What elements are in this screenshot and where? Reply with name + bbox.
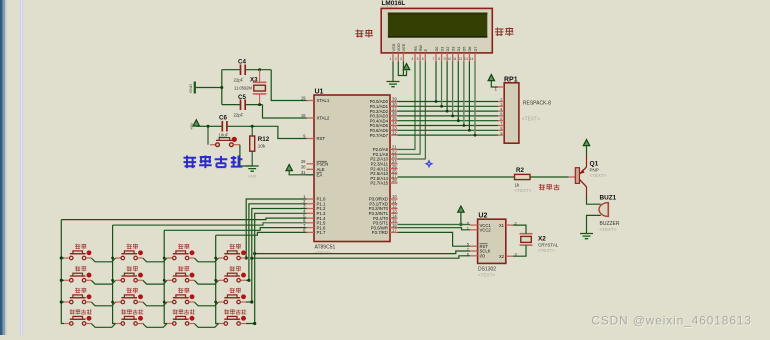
wire Q1 emitter: [586, 146, 588, 155]
wire keypad column 2: [113, 225, 116, 323]
power +5V terminal: [189, 120, 200, 130]
junction: [111, 279, 114, 282]
wire keypad column 4: [216, 235, 219, 323]
button 秒减 (row 3 col 4): [219, 288, 246, 304]
junction: [111, 301, 114, 304]
svg-text:<TEXT>: <TEXT>: [478, 273, 495, 278]
junction: [440, 105, 443, 108]
svg-text:<TEXT>: <TEXT>: [600, 227, 617, 232]
ic U1 AT89C51: [314, 89, 390, 256]
svg-text:9: 9: [444, 57, 446, 61]
svg-text:E: E: [423, 49, 428, 52]
svg-text:6: 6: [422, 57, 424, 61]
pin 1 RP1: [498, 86, 504, 88]
svg-text:P3.7/RD: P3.7/RD: [372, 230, 388, 235]
svg-text:11: 11: [453, 57, 457, 61]
svg-text:28: 28: [392, 178, 397, 183]
left panel edge: [0, 0, 3, 335]
wire row segment: [194, 302, 218, 306]
svg-text:10k: 10k: [258, 144, 266, 149]
pin 5 RP1: [498, 115, 504, 117]
junction: [250, 300, 253, 303]
wire keypad row 3 to P1.2: [246, 209, 307, 303]
wire P0 bus: [398, 110, 499, 112]
svg-text:22pF: 22pF: [234, 113, 244, 118]
pin 19 XTAL1: [307, 100, 315, 102]
svg-text:VEE: VEE: [401, 43, 406, 51]
pin 6 P1.5: [307, 222, 315, 224]
wire keypad column 4 feed: [216, 232, 307, 235]
buzzer BUZ1: [599, 195, 620, 232]
button 秒加 (row 3 col 3): [167, 288, 194, 304]
wire row segment: [143, 302, 167, 306]
svg-text:X1: X1: [499, 223, 505, 228]
pin 29 PSEN: [307, 163, 315, 165]
wire XTAL2: [263, 105, 307, 118]
wire row segment: [194, 324, 218, 328]
svg-text:2: 2: [395, 57, 397, 61]
svg-text:CRYSTAL: CRYSTAL: [538, 242, 559, 247]
capacitor C4: [234, 59, 247, 83]
button 月加 (row 1 col 3): [167, 244, 194, 260]
svg-text:R2: R2: [516, 167, 524, 174]
pin 8 U2 VCC1: [470, 224, 478, 226]
svg-text:1k: 1k: [515, 182, 521, 187]
svg-text:30: 30: [301, 165, 306, 170]
pin 37 P0.2/AD2: [390, 110, 398, 112]
wire Q1 collector to buzzer: [586, 187, 588, 197]
wire keypad column 3: [164, 230, 167, 323]
svg-text:4: 4: [412, 57, 414, 61]
junction: [250, 257, 253, 260]
pin 22 P2.1/A9: [390, 153, 398, 155]
junction: [463, 124, 466, 127]
svg-text:RESPACK-8: RESPACK-8: [523, 101, 551, 107]
svg-text:P2.7/A15: P2.7/A15: [370, 181, 388, 186]
wire LCD control: [398, 62, 421, 155]
pin 6 RP1: [498, 120, 504, 122]
junction: [253, 252, 256, 255]
wire LCD control: [398, 62, 426, 160]
button 闹钟时加 (row 4 col 1): [64, 309, 92, 325]
svg-text:D4: D4: [456, 46, 461, 52]
wire keypad column 1: [61, 220, 64, 324]
pin 21 P2.0/A8: [390, 148, 398, 150]
svg-text:13: 13: [464, 57, 468, 61]
svg-text:10: 10: [447, 57, 451, 61]
pin 3 RP1: [498, 105, 504, 107]
pin 18 XTAL2: [307, 117, 315, 119]
pin 10 P3.0/RXD: [390, 198, 398, 200]
svg-text:GND: GND: [188, 84, 193, 93]
svg-text:D7: D7: [473, 47, 478, 52]
pin 4 P1.3: [307, 212, 315, 214]
wire P3.6 to VCC2: [398, 228, 471, 230]
wire I/O: [252, 256, 470, 258]
wire P0 bus: [398, 120, 499, 122]
pin 4 RP1: [498, 110, 504, 112]
pin 9 RST: [307, 138, 315, 140]
svg-text:3: 3: [400, 57, 402, 61]
push button reset: [208, 126, 240, 146]
button 时减 (row 2 col 4): [219, 266, 246, 282]
svg-text:CSDN @weixin_46018613: CSDN @weixin_46018613: [591, 314, 751, 328]
wire buzzer to gnd: [587, 215, 601, 233]
label 复位按键: [184, 156, 197, 169]
junction: [111, 257, 114, 260]
button 闹钟时减 (row 4 col 2): [116, 309, 144, 325]
watermark CSDN: [591, 314, 752, 329]
wire LCD data: [463, 62, 465, 126]
crystal X3: [234, 70, 266, 105]
svg-text:<TEXT>: <TEXT>: [515, 188, 532, 193]
svg-text:X2: X2: [499, 254, 505, 259]
wire gnd to node: [196, 87, 222, 89]
svg-text:BUZ1: BUZ1: [600, 195, 617, 202]
svg-text:I/O: I/O: [480, 254, 486, 259]
junction: [251, 125, 254, 128]
svg-text:C6: C6: [219, 115, 227, 122]
pin 2 RP1: [498, 101, 504, 103]
wire row segment: [143, 280, 167, 284]
wire RP1 pin1: [491, 81, 498, 87]
transistor Q1 PNP: [575, 161, 606, 187]
button 年减 (row 1 col 2): [116, 244, 143, 260]
wire row segment: [91, 302, 115, 306]
LCD LCD1 LM016L: [381, 0, 492, 62]
junction: [163, 257, 166, 260]
pin 32 P0.7/AD7: [390, 134, 398, 136]
junction: [245, 256, 248, 259]
svg-text:+5V: +5V: [189, 122, 194, 130]
pin 2 U2 X1: [506, 224, 513, 226]
pin 8 RP1: [498, 129, 504, 131]
svg-text:1: 1: [390, 57, 392, 61]
label 蜂鸣器: [539, 184, 545, 190]
pin 13 P3.3/INT1: [390, 212, 398, 214]
wire LCD data: [441, 62, 443, 107]
wire P3.7 to U2 RST: [398, 232, 471, 246]
junction: [435, 100, 438, 103]
svg-text:11.0592M: 11.0592M: [234, 85, 252, 90]
junction: [258, 68, 261, 71]
pin 7 RP1: [498, 125, 504, 127]
crystal X2: [520, 234, 559, 253]
wire button to gnd: [240, 145, 252, 166]
wire keypad column 1 feed: [61, 218, 306, 220]
wire LCD data: [468, 62, 470, 131]
pin 3 U2 X2: [506, 255, 513, 257]
junction: [60, 256, 63, 259]
pin 1 P1.0: [307, 198, 315, 200]
junction: [468, 129, 471, 132]
wire row start: [61, 279, 64, 281]
pin 7 U2 SCLK: [470, 250, 478, 252]
wire row segment: [194, 280, 218, 284]
pin 16 P3.6/WR: [390, 227, 398, 229]
wire VDD to +5V: [398, 62, 406, 76]
wire LCD data: [452, 62, 454, 116]
pin 34 P0.5/AD5: [390, 125, 398, 127]
button 分加 (row 3 col 1): [64, 288, 91, 304]
button 日加 (row 2 col 1): [64, 266, 91, 282]
svg-text:<TEXT>: <TEXT>: [522, 117, 541, 123]
pin 24 P2.3/A11: [390, 163, 398, 165]
svg-text:C4: C4: [238, 59, 246, 66]
junction: [163, 301, 166, 304]
label 闹钟: [495, 28, 504, 37]
power +5V (RP1): [488, 75, 494, 81]
pin 17 P3.7/RD: [390, 231, 398, 233]
svg-text:17: 17: [392, 228, 397, 233]
svg-text:7: 7: [433, 57, 435, 61]
svg-text:12: 12: [458, 57, 462, 61]
grid guide line: [20, 0, 22, 335]
ground (buzzer): [580, 234, 593, 239]
wire row segment: [143, 258, 167, 262]
resistor R2: [515, 167, 532, 193]
junction: [459, 223, 462, 226]
svg-text:8: 8: [438, 57, 440, 61]
pin 28 P2.7/A15: [390, 182, 398, 184]
pin 36 P0.3/AD3: [390, 115, 398, 117]
pin 8 P1.7: [307, 231, 315, 233]
wire row segment: [91, 258, 115, 262]
svg-text:29: 29: [301, 159, 306, 164]
wire row segment: [91, 280, 115, 284]
svg-text:Q1: Q1: [590, 161, 599, 168]
svg-text:10uF: 10uF: [219, 133, 229, 138]
svg-text:14: 14: [470, 57, 474, 61]
svg-text:XTAL2: XTAL2: [317, 116, 330, 121]
wire LCD data: [435, 62, 437, 102]
svg-text:GND: GND: [248, 175, 256, 179]
svg-text:R12: R12: [258, 136, 270, 143]
svg-text:VSS: VSS: [391, 43, 396, 51]
power +5V (EA): [286, 165, 292, 171]
pin 30 ALE: [307, 168, 315, 170]
wire VSS: [392, 62, 394, 82]
junction: [163, 279, 166, 282]
wire P0 bus: [398, 115, 499, 117]
svg-text:D6: D6: [467, 47, 472, 52]
pin 15 P3.5/T1: [390, 222, 398, 224]
wire +5V to VCC1: [460, 213, 462, 225]
button 月减 (row 1 col 4): [219, 244, 246, 260]
svg-text:RST: RST: [317, 136, 326, 141]
svg-text:D3: D3: [451, 47, 456, 52]
pin 31 EA: [307, 174, 315, 176]
wire keypad column 3 feed: [164, 228, 306, 231]
pin 23 P2.2/A10: [390, 158, 398, 160]
capacitor C5: [234, 94, 247, 118]
svg-text:EA: EA: [317, 173, 323, 178]
wire row start: [61, 301, 64, 303]
wire EA: [289, 171, 314, 175]
wire X2 to crystal: [513, 245, 526, 256]
pin 12 P3.2/INT0: [390, 208, 398, 210]
wire SCLK: [255, 251, 470, 254]
button 时加 (row 2 col 3): [167, 266, 194, 282]
wire P0 bus: [398, 129, 499, 131]
pin 26 P2.5/A13: [390, 172, 398, 174]
junction: [214, 279, 217, 282]
junction: [474, 134, 477, 137]
capacitor C6: [219, 115, 229, 138]
pin 38 P0.1/AD1: [390, 105, 398, 107]
pin 9 RP1: [498, 134, 504, 136]
svg-text:P1.7: P1.7: [317, 230, 326, 235]
wire P0 bus: [398, 125, 499, 127]
svg-text:XTAL1: XTAL1: [317, 98, 330, 103]
pin 7 P1.6: [307, 227, 315, 229]
wire VEE: [402, 62, 404, 76]
button 闹钟分加 (row 4 col 3): [167, 309, 195, 325]
svg-text:22pF: 22pF: [234, 78, 244, 83]
svg-text:VCC2: VCC2: [480, 228, 492, 233]
wire keypad row 2 to P1.1: [246, 204, 307, 280]
wire left branch: [221, 70, 223, 105]
pin 6 U2 I/O: [470, 255, 478, 257]
svg-text:PNP: PNP: [590, 168, 599, 173]
ground terminal GND: [188, 82, 195, 94]
wire XTAL1: [271, 70, 306, 101]
wire P3.5 to VCC1: [398, 224, 471, 226]
cursor marker: [425, 159, 434, 168]
pin 3 P1.2: [307, 208, 315, 210]
pin 27 P2.6/A14: [390, 177, 398, 179]
junction: [451, 115, 454, 118]
wire row segment: [194, 258, 218, 262]
wire P0 bus: [398, 105, 499, 107]
power +5V (Q1): [583, 140, 589, 146]
svg-text:<TEXT>: <TEXT>: [538, 248, 555, 253]
ic U2 DS1302: [478, 213, 506, 278]
wire LCD data: [474, 62, 476, 136]
wire R2 to Q1 base: [530, 176, 569, 178]
svg-text:5: 5: [417, 57, 419, 61]
junction: [247, 279, 250, 282]
wire P0 bus: [398, 101, 499, 103]
pin 5 P1.4: [307, 217, 315, 219]
junction: [457, 119, 460, 122]
junction: [446, 110, 449, 113]
wire LCD data: [457, 62, 459, 121]
pin 14 P3.4/T0: [390, 217, 398, 219]
junction: [60, 300, 63, 303]
wire keypad row 1 to P1.0: [246, 199, 307, 258]
resistor R12: [250, 126, 270, 166]
button 年加 (row 1 col 1): [64, 244, 91, 260]
ground (reset): [246, 166, 259, 171]
svg-text:<TEXT>: <TEXT>: [590, 173, 607, 178]
wire P2.6 to R2: [398, 176, 515, 178]
resistor pack RP1 RESPACK-8: [504, 77, 551, 144]
svg-text:D2: D2: [445, 47, 450, 52]
power +5V (LCD VDD): [403, 64, 409, 70]
ground: [387, 82, 400, 87]
pin 33 P0.6/AD6: [390, 129, 398, 131]
label 时间: [356, 30, 364, 38]
svg-text:32: 32: [392, 130, 397, 135]
svg-text:PSEN: PSEN: [317, 162, 329, 167]
junction: [220, 86, 223, 89]
power +5V (U2): [458, 206, 464, 212]
wire keypad row 4 to P1.3: [246, 213, 307, 323]
wire P0 bus: [398, 134, 499, 136]
junction: [207, 125, 210, 128]
button 日减 (row 2 col 2): [116, 266, 143, 282]
wire LCD control: [398, 62, 416, 150]
wire X1 to crystal: [513, 225, 526, 234]
pin 25 P2.4/A12: [390, 168, 398, 170]
pin 35 P0.4/AD4: [390, 120, 398, 122]
wire crystal top node: [222, 69, 240, 71]
junction: [253, 322, 256, 325]
wire crystal bottom node: [222, 104, 240, 106]
pin 2 P1.1: [307, 203, 315, 205]
junction: [214, 301, 217, 304]
junction: [60, 279, 63, 282]
svg-text:D1: D1: [439, 47, 444, 52]
wire reset rail: [196, 125, 208, 127]
svg-text:D0: D0: [434, 46, 439, 52]
wire keypad column 2 feed: [113, 223, 307, 225]
wire LCD data: [446, 62, 448, 112]
svg-text:D5: D5: [462, 47, 467, 52]
junction: [258, 103, 261, 106]
button 闹钟分减 (row 4 col 4): [219, 309, 247, 325]
button 分减 (row 3 col 2): [116, 288, 143, 304]
svg-text:P0.7/AD7: P0.7/AD7: [370, 133, 389, 138]
wire row start: [61, 257, 64, 259]
pin 39 P0.0/AD0: [390, 101, 398, 103]
wire row segment: [143, 324, 167, 328]
svg-text:ALE: ALE: [317, 167, 325, 172]
pin 11 P3.1/TXD: [390, 203, 398, 205]
pin 5 U2 RST: [470, 245, 478, 247]
junction: [214, 257, 217, 260]
wire row segment: [91, 324, 115, 328]
pin 1 U2 VCC2: [470, 229, 478, 231]
